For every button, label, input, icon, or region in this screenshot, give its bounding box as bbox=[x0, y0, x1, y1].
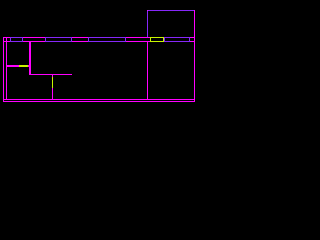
wire: top room outline top edge (violet) bbox=[147, 10, 194, 11]
wire: interior wall horizontal y=74 (magenta) bbox=[29, 74, 72, 75]
node: window W1 in band (violet outline) bbox=[10, 37, 23, 42]
wire: interior wall vertical x=52 (magenta) bbox=[52, 75, 53, 99]
node: window W2 in band (violet outline) bbox=[45, 37, 72, 42]
wire: left exterior wall inner line x=6 (magenta) bbox=[6, 37, 7, 100]
wire: main band wall top line y=37 (magenta) bbox=[3, 37, 195, 38]
wire: bottom exterior wall inner line y=99 (magenta) bbox=[3, 99, 195, 100]
wire: right room divider x=147 (magenta) bbox=[147, 42, 148, 99]
wire: top room outline left edge (violet) bbox=[147, 10, 148, 37]
wire: interior partition y=65-66 (magenta) bbox=[6, 65, 31, 67]
wire: main band wall bottom line y=41 (magenta) bbox=[3, 41, 195, 42]
node: window W3 in band (violet outline) bbox=[88, 37, 126, 42]
node: door leaf in partition (chartreuse) bbox=[19, 65, 28, 67]
wire: interior wall vertical x=29-30 (magenta) bbox=[29, 42, 31, 74]
wire: right exterior wall (magenta) bbox=[194, 10, 195, 102]
node: window W4 in band (violet outline) bbox=[164, 37, 190, 42]
node: highlighted opening rectangle (chartreuse outline) bbox=[150, 37, 164, 42]
wire: left exterior wall outer line x=3 (magenta) bbox=[3, 37, 4, 102]
node: top room corner dot (magenta) bbox=[147, 10, 148, 11]
wire: bottom exterior wall outer line y=101 (magenta) bbox=[3, 101, 195, 102]
node: door leaf in vertical wall (chartreuse) bbox=[52, 77, 53, 88]
